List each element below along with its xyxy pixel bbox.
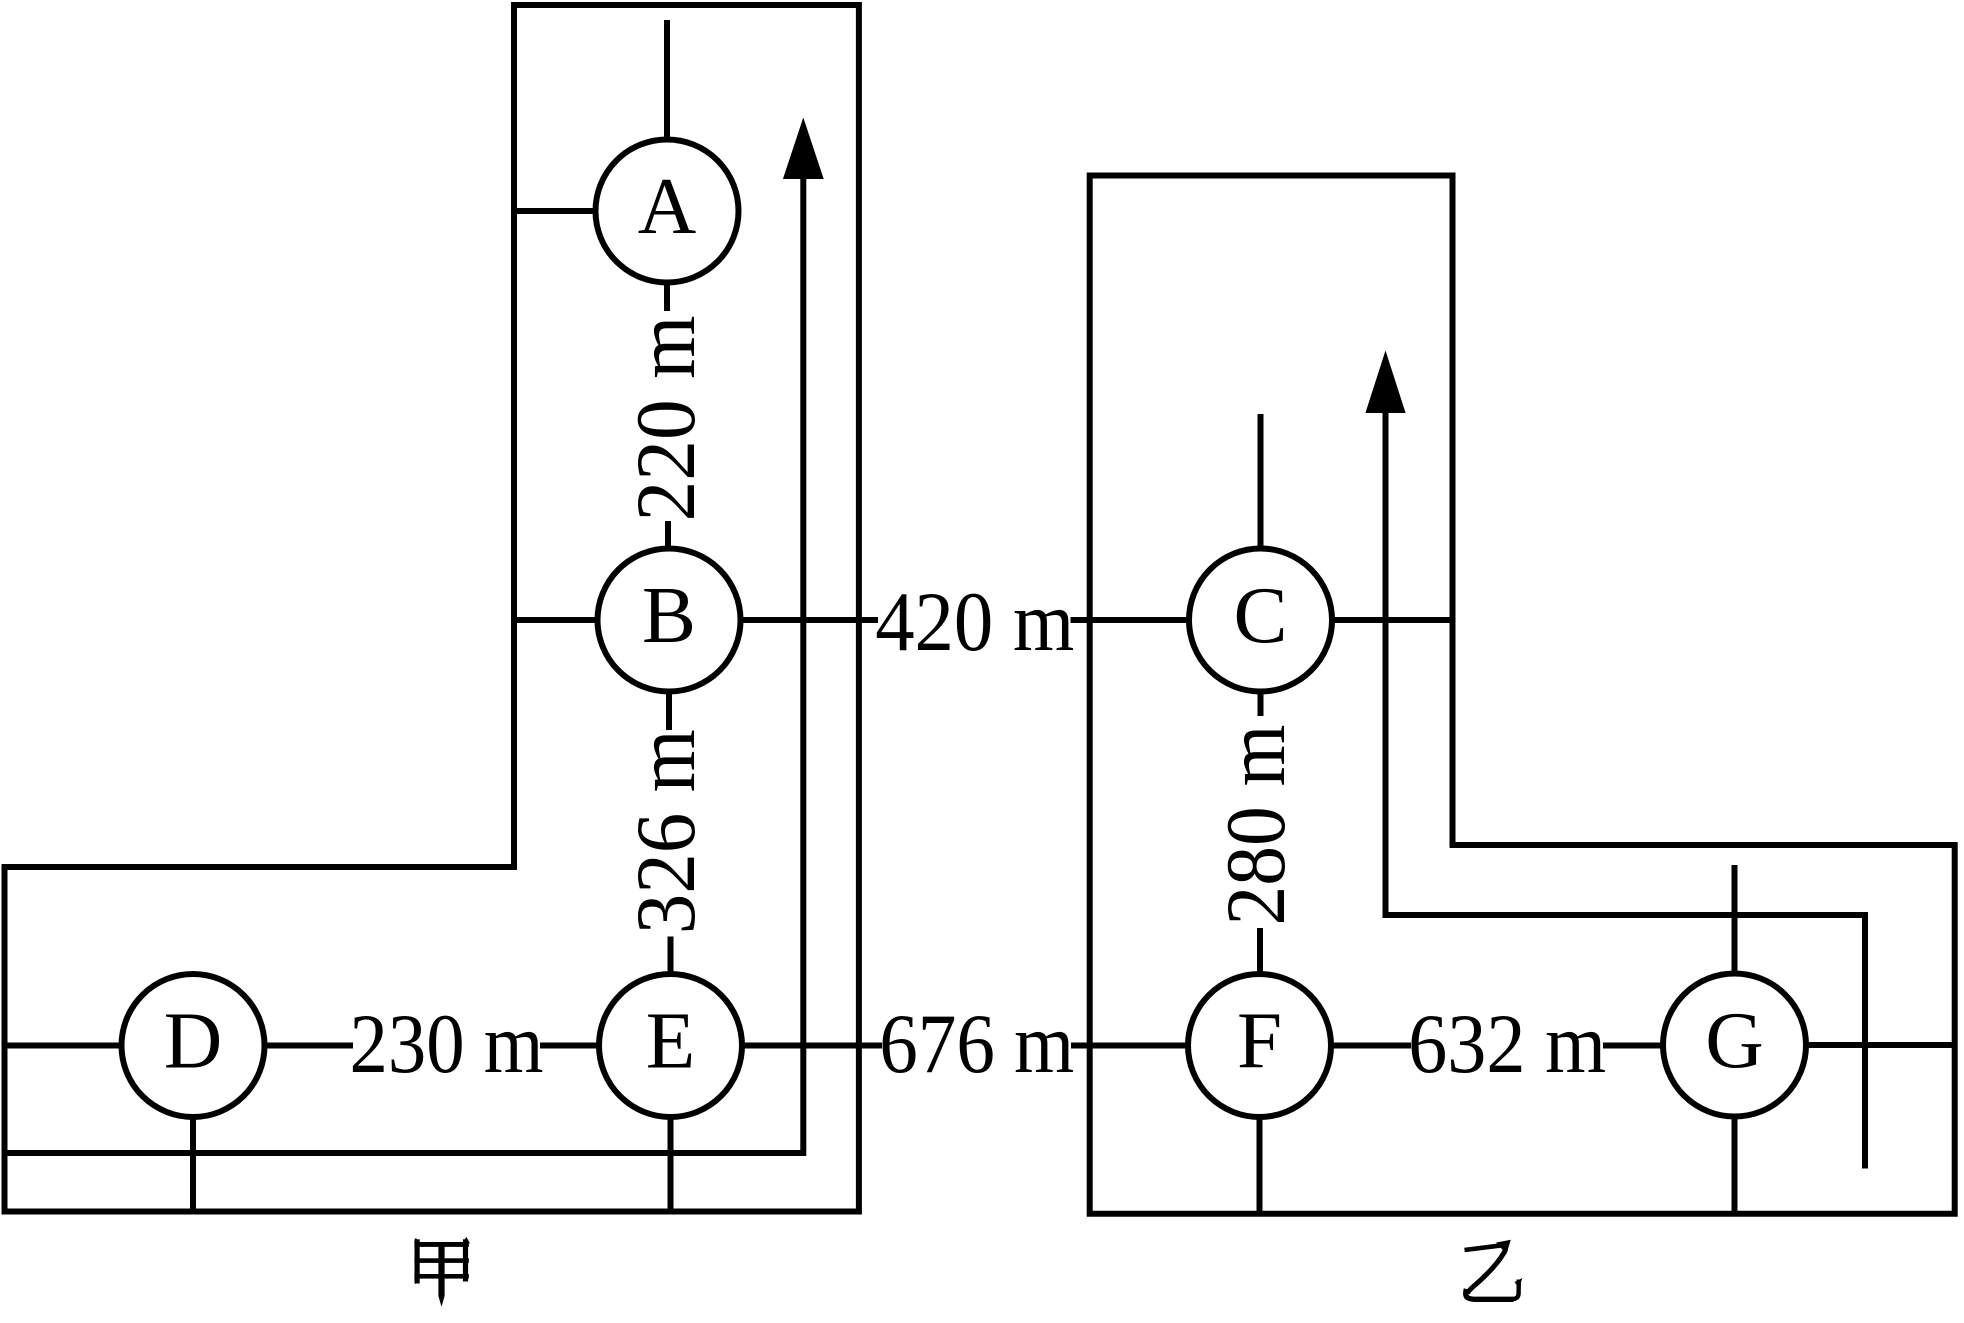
wire label420 to C (1071, 617, 1190, 623)
node circle D (122, 974, 265, 1117)
wire label230 to E (540, 1043, 599, 1049)
wire D to label230 (265, 1043, 354, 1049)
wire F to label632 (1331, 1043, 1411, 1049)
hanzi 甲 (drawn) (414, 1237, 470, 1307)
node circle E (599, 974, 742, 1117)
svg-text:D: D (164, 996, 223, 1086)
outline loop 乙 (1090, 176, 1955, 1214)
wire left-border to A (514, 208, 596, 214)
hanzi 乙 (drawn) (1465, 1240, 1523, 1300)
svg-text:230 m: 230 m (350, 997, 544, 1091)
wire label676 to F (1071, 1043, 1188, 1049)
node circle B (598, 549, 741, 692)
stub below F (1257, 1117, 1263, 1214)
stub above G (1732, 865, 1738, 974)
svg-text:C: C (1233, 570, 1287, 660)
svg-text:220 m: 220 m (619, 316, 713, 522)
svg-text:632 m: 632 m (1408, 997, 1606, 1091)
node circle A (596, 140, 739, 283)
wire E to label676 (742, 1043, 882, 1049)
stub label326 to E (668, 937, 674, 976)
node circle F (1188, 974, 1331, 1117)
wire B to label420 (741, 617, 879, 623)
arrowhead 乙 (1365, 351, 1405, 414)
stub below D (190, 1117, 196, 1212)
stub label280 to F (1257, 928, 1263, 975)
stub below B (666, 690, 672, 730)
stub below A (664, 283, 670, 312)
arrowhead 甲 (783, 118, 824, 180)
stub below E (668, 1117, 674, 1212)
stub label220 to B (665, 521, 671, 549)
stub below C (1258, 690, 1264, 716)
svg-text:G: G (1705, 995, 1764, 1085)
wire C to right-border (1332, 617, 1453, 623)
svg-text:676 m: 676 m (879, 997, 1074, 1091)
svg-text:A: A (638, 161, 697, 251)
node circle C (1189, 549, 1332, 692)
outline loop 甲 (5, 5, 859, 1212)
route hook line with arrow shaft 乙 (1386, 408, 1866, 1169)
node circle G (1663, 974, 1806, 1117)
stub above A (664, 20, 670, 140)
stub below G (1732, 1118, 1738, 1214)
svg-text:326 m: 326 m (619, 729, 713, 934)
wire left-border to D (5, 1043, 122, 1049)
svg-text:B: B (642, 570, 696, 660)
svg-text:420 m: 420 m (875, 575, 1074, 669)
wire G to right-border (1806, 1042, 1955, 1048)
svg-text:280 m: 280 m (1209, 725, 1303, 926)
stub above C (1258, 414, 1264, 549)
route line with arrow shaft 甲 (2, 174, 803, 1153)
wire left-border to B (514, 617, 598, 623)
svg-text:E: E (646, 996, 695, 1086)
wire label632 to G (1603, 1043, 1663, 1049)
svg-text:F: F (1237, 996, 1282, 1086)
